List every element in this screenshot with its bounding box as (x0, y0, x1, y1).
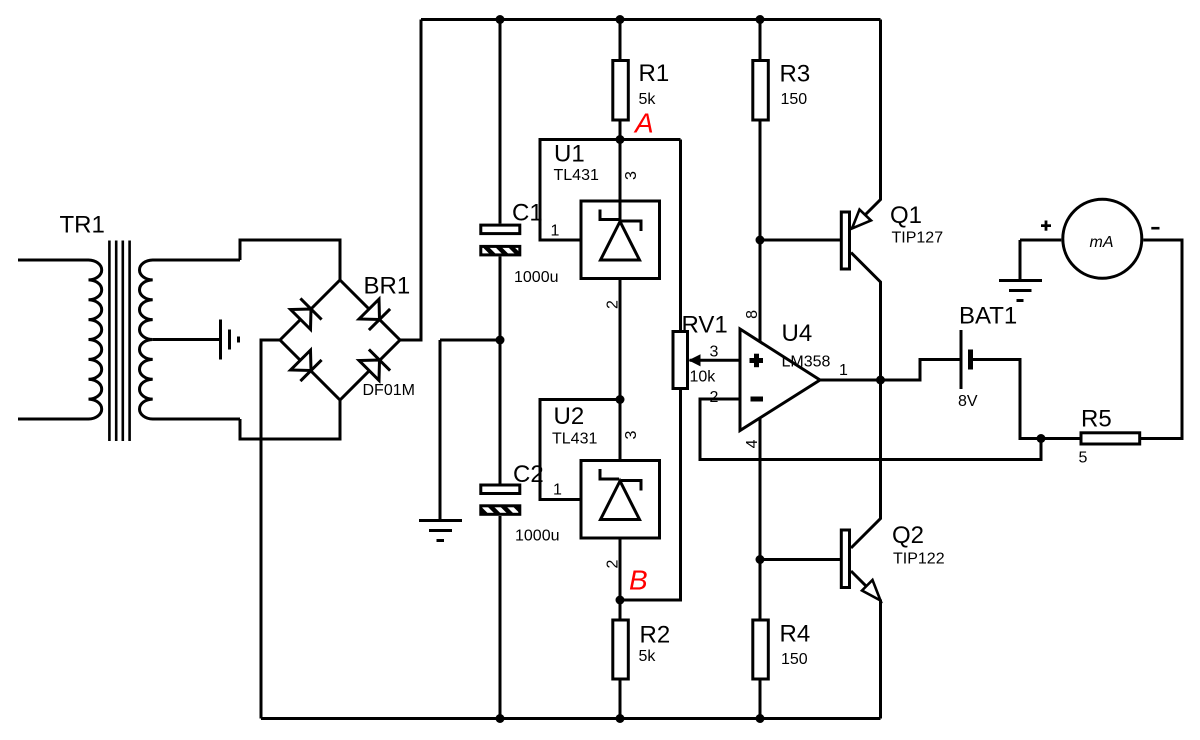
svg-text:5k: 5k (639, 648, 657, 665)
svg-text:U1: U1 (554, 141, 585, 168)
svg-text:B: B (629, 565, 648, 596)
transistor Q2 (841, 530, 880, 601)
wire U2 box outline (540, 400, 620, 500)
diode D-bottomright of BR1 (359, 349, 390, 380)
wire ground to cap midpoint (440, 340, 500, 519)
meter mA (1020, 199, 1142, 279)
resistor R4 (753, 620, 769, 679)
svg-text:1: 1 (553, 482, 562, 499)
resistor R1 (613, 61, 629, 121)
label plus meter (1041, 221, 1051, 231)
svg-text:C1: C1 (512, 200, 543, 227)
wire U1 box outline (540, 140, 681, 241)
resistor R3 (753, 61, 769, 121)
transistor Q1 (841, 210, 871, 270)
svg-text:150: 150 (781, 651, 808, 668)
svg-text:RV1: RV1 (682, 312, 728, 339)
diode D-topright of BR1 (359, 299, 390, 330)
svg-text:2: 2 (604, 300, 621, 309)
svg-text:10k: 10k (690, 369, 717, 386)
wire U4 output (820, 360, 961, 381)
svg-text:R2: R2 (640, 622, 671, 649)
ground (meter plus) (999, 281, 1042, 301)
capacitor C1 (481, 225, 520, 255)
ground (main) (419, 521, 462, 541)
svg-text:5k: 5k (639, 91, 657, 108)
svg-text:2: 2 (604, 560, 621, 569)
resistor R5 (1081, 240, 1182, 444)
svg-text:mA: mA (1090, 234, 1114, 251)
svg-text:5: 5 (1079, 450, 1088, 467)
op-amp U4 (740, 329, 820, 431)
wire RV1 column (620, 140, 681, 601)
wire U4 pin 8 (759, 240, 762, 342)
op-amp U1 TL431 symbol (581, 140, 660, 279)
bridge BR1 diamond (280, 280, 400, 400)
battery BAT1 (920, 330, 1080, 439)
wire between C1 and C2 (499, 257, 502, 484)
svg-text:Q1: Q1 (890, 202, 922, 229)
wire Q1 emitter from rail (852, 20, 881, 229)
svg-text:TL431: TL431 (554, 167, 599, 184)
svg-text:R4: R4 (780, 621, 811, 648)
wire bridge left vertex down to bottom rail (261, 340, 280, 719)
svg-text:DF01M: DF01M (363, 382, 415, 399)
diode D-topleft of BR1 (291, 298, 322, 329)
svg-text:3: 3 (710, 344, 719, 361)
wire R3 column (759, 20, 762, 241)
op-amp U2 TL431 symbol (581, 461, 660, 539)
wire C2 to bottom rail (499, 516, 502, 719)
svg-text:2: 2 (710, 389, 719, 406)
ground (center tap, rotated) (221, 320, 239, 360)
svg-text:TIP122: TIP122 (893, 551, 945, 568)
wire U4 pin 4 down through R4 (759, 418, 762, 719)
wire Q2 emitter (851, 571, 881, 719)
svg-text:1000u: 1000u (515, 528, 560, 545)
svg-text:LM358: LM358 (782, 354, 831, 371)
svg-text:R1: R1 (639, 60, 670, 87)
svg-text:R5: R5 (1081, 406, 1112, 433)
potentiometer RV1 (673, 332, 740, 389)
wire main center column x=620 (619, 20, 622, 719)
wire top rail (421, 18, 881, 21)
wire bridge right vertex to top rail (400, 20, 421, 341)
svg-text:U4: U4 (782, 320, 813, 347)
svg-text:R3: R3 (780, 61, 811, 88)
wire secondary center tap (153, 338, 221, 341)
svg-text:A: A (633, 108, 654, 139)
svg-text:C2: C2 (513, 461, 544, 488)
svg-text:1: 1 (839, 362, 848, 379)
resistor R2 (613, 620, 629, 679)
svg-text:1000u: 1000u (514, 269, 559, 286)
wire secondary bottom to bridge bottom (240, 400, 340, 439)
capacitor C2 (481, 485, 520, 514)
wire secondary top to bridge top (240, 240, 340, 280)
svg-text:4: 4 (744, 439, 761, 448)
svg-text:TL431: TL431 (552, 431, 597, 448)
svg-text:1: 1 (551, 223, 560, 240)
wire Q1 collector down to Q2 (851, 253, 881, 549)
svg-text:8: 8 (744, 310, 761, 319)
wire U4 minus input and feedback (700, 399, 1041, 460)
wire Q2 base (760, 558, 840, 561)
svg-text:3: 3 (623, 431, 640, 440)
transformer TR1 (18, 241, 240, 442)
node junction dots (496, 15, 1046, 723)
label minus meter (1151, 227, 1159, 230)
svg-text:TIP127: TIP127 (892, 230, 944, 247)
svg-text:BR1: BR1 (364, 273, 411, 300)
svg-text:BAT1: BAT1 (959, 303, 1017, 330)
svg-text:U2: U2 (554, 403, 585, 430)
svg-text:Q2: Q2 (892, 522, 924, 549)
svg-text:8V: 8V (958, 393, 978, 410)
diode D-bottomleft of BR1 (291, 350, 322, 381)
svg-text:TR1: TR1 (60, 212, 105, 239)
svg-text:3: 3 (623, 171, 640, 180)
wire Q1 base (760, 239, 840, 242)
svg-text:150: 150 (781, 91, 808, 108)
wire bottom rail (261, 717, 881, 720)
wire C1/C2 column top (499, 20, 502, 224)
